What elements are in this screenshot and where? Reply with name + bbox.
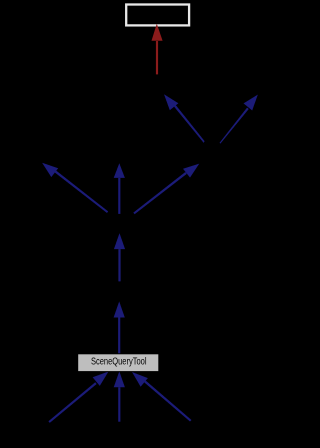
svg-text:SceneQueryTool: SceneQueryTool <box>91 357 147 368</box>
